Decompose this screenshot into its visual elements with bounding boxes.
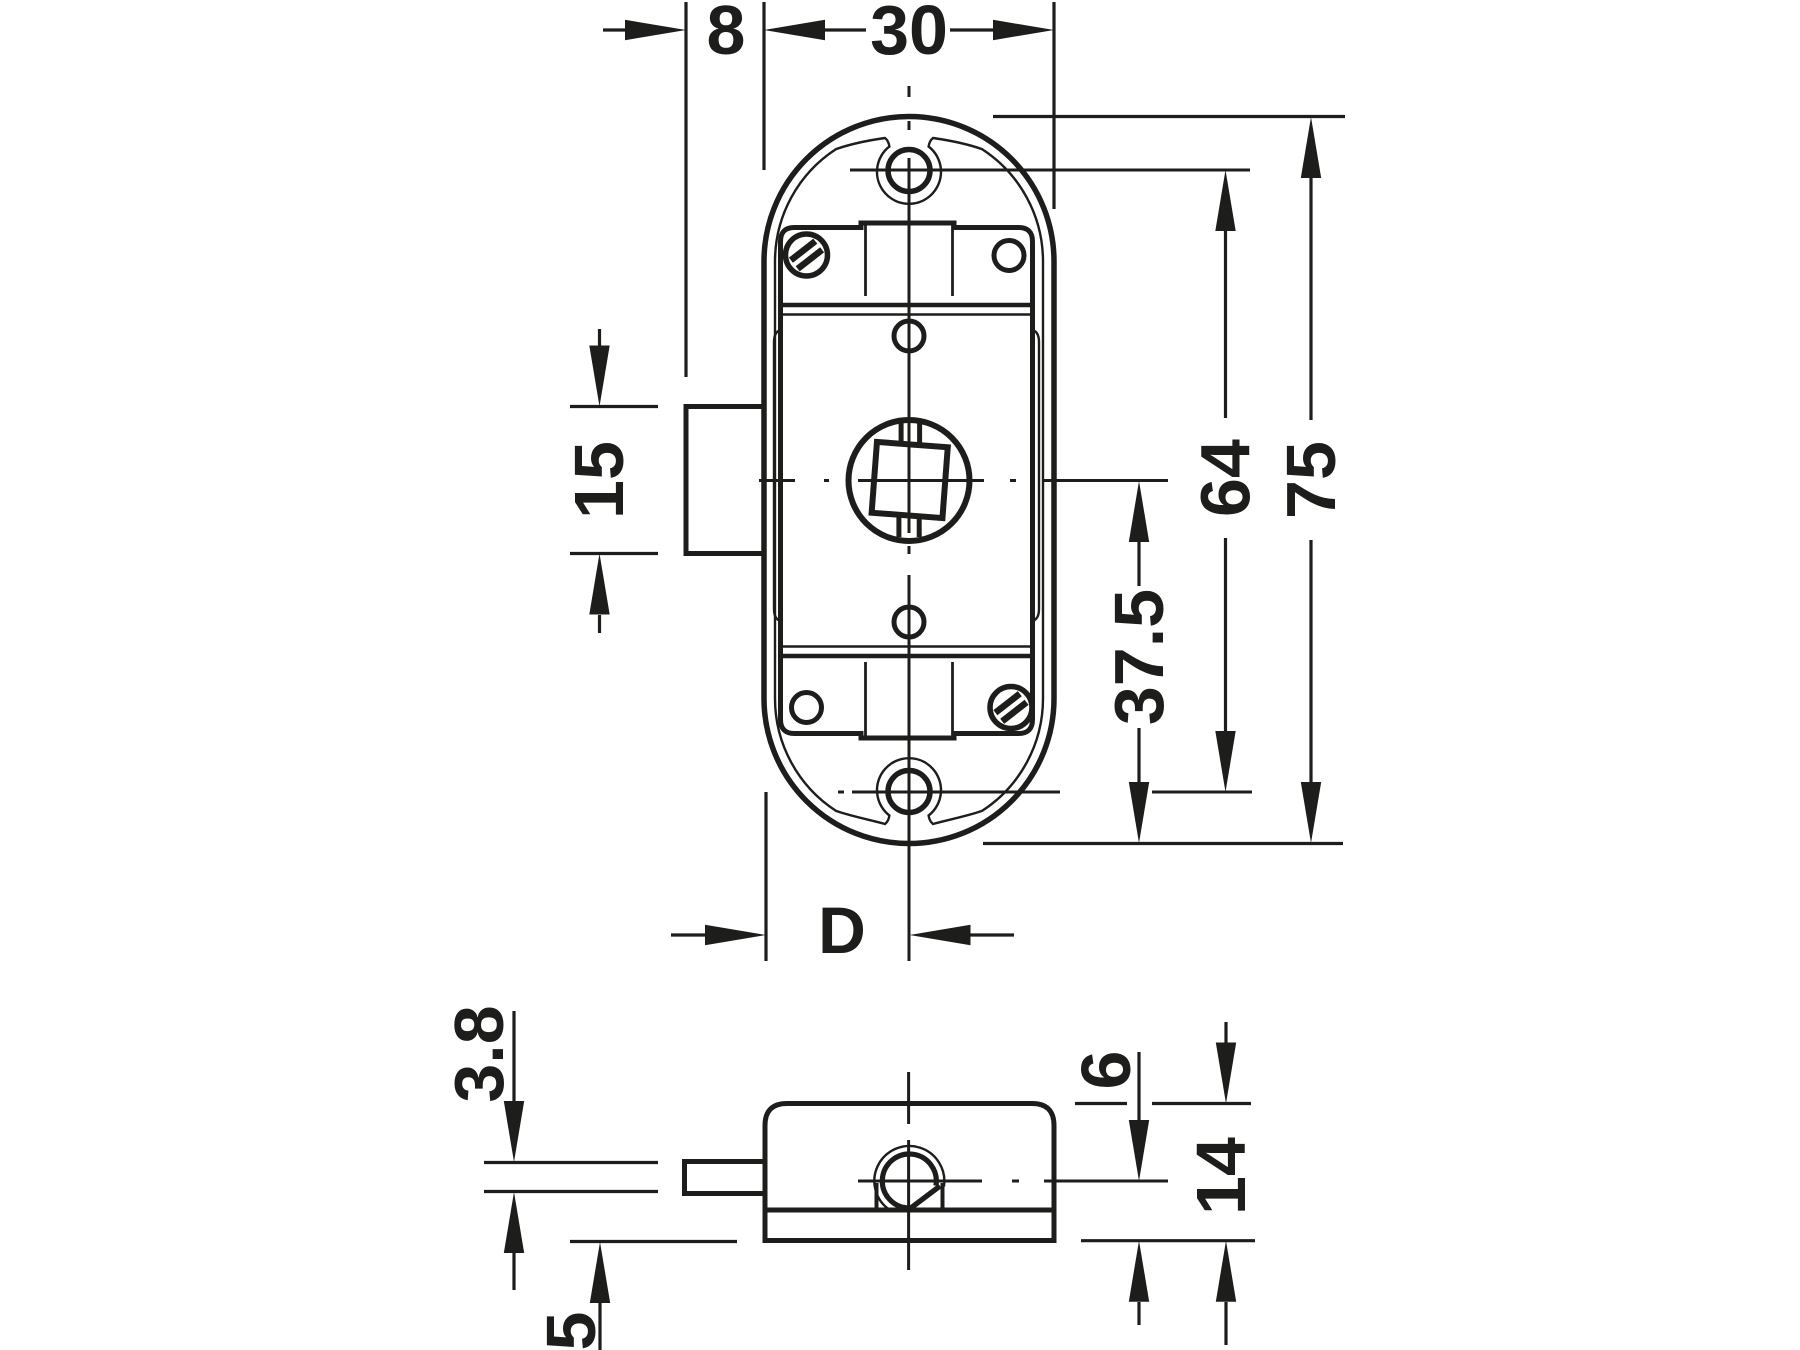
- top right hole: [994, 241, 1024, 271]
- dim D extension line: [764, 792, 767, 961]
- slide channel bottom left edge: [864, 662, 867, 736]
- lock housing oval (stadium outline): [764, 117, 1054, 844]
- svg-text:37.5: 37.5: [1100, 589, 1178, 725]
- upper guide hole: [894, 321, 924, 351]
- top mounting screw hole: [888, 150, 930, 192]
- oval bottom extension line: [983, 842, 1343, 845]
- SIDE VIEW: [685, 1104, 1055, 1241]
- spindle hub thin circle: [874, 1146, 944, 1210]
- lower guide hole: [894, 607, 924, 637]
- dim 15 arrows: [598, 329, 601, 346]
- spindle hub bold circle with flat: [882, 1154, 936, 1208]
- dim 30 left arrow: [764, 20, 825, 40]
- dim 3.8 extension lines: [484, 1161, 658, 1164]
- spindle boss circle: [849, 420, 970, 541]
- extension line x1054: [1052, 2, 1055, 209]
- svg-text:8: 8: [707, 0, 746, 69]
- spindle bottom slot: [896, 514, 901, 537]
- dim 14 line and arrows: [1224, 1022, 1227, 1043]
- front horizontal centerline (spindle): [759, 479, 1168, 482]
- oval top extension line: [993, 115, 1345, 118]
- svg-text:64: 64: [1187, 439, 1265, 517]
- extension line x686: [684, 2, 687, 377]
- slide channel bottom right edge: [951, 662, 954, 736]
- dim 3.8 line and arrows: [512, 1011, 515, 1101]
- top left fixing screw: [786, 234, 828, 276]
- bottom mounting screw hole: [888, 771, 930, 813]
- dim 75 line: [1301, 117, 1321, 178]
- dim 64 line: [1215, 170, 1235, 231]
- slide channel top left edge: [864, 226, 867, 297]
- latch bolt (left protrusion): [686, 407, 768, 554]
- spindle top slot: [899, 423, 904, 445]
- bottom left hole: [792, 693, 822, 723]
- side wall bracket left: [774, 330, 781, 621]
- bottom band line bold: [783, 654, 1030, 659]
- side body outline: [765, 1104, 1054, 1241]
- inner housing contour with screw-hole cusps: [775, 138, 1043, 824]
- dim 6 line and arrows: [1137, 1052, 1140, 1121]
- side bottom extension line: [1081, 1239, 1255, 1242]
- FRONT VIEW: [686, 117, 1054, 844]
- top band line thin: [783, 313, 1030, 315]
- svg-text:5: 5: [532, 1312, 610, 1350]
- svg-text:6: 6: [1067, 1051, 1145, 1090]
- svg-text:3.8: 3.8: [440, 1005, 518, 1102]
- bottom hole centerline extension: [838, 791, 1252, 794]
- front vertical centerline: [908, 86, 911, 961]
- spindle flat chord: [910, 1186, 941, 1209]
- svg-text:75: 75: [1272, 441, 1350, 519]
- svg-text:14: 14: [1182, 1137, 1260, 1215]
- mounting plate line: [765, 1208, 1054, 1213]
- svg-text:30: 30: [870, 0, 948, 69]
- side top extension line: [1075, 1102, 1127, 1105]
- dim D arrows: [671, 933, 709, 936]
- dim 5 arrow: [590, 1242, 610, 1303]
- side wall bracket right: [1033, 330, 1040, 621]
- side view vertical centerline: [907, 1072, 910, 1270]
- dim 8 arrow and line: [603, 28, 628, 31]
- dim 15 extension lines: [570, 405, 658, 408]
- side view horizontal centerline: [858, 1180, 1168, 1183]
- top hole centerline extension: [850, 169, 1250, 172]
- svg-text:D: D: [818, 893, 866, 967]
- slide channel top right edge: [951, 226, 954, 297]
- extension line x764: [762, 2, 765, 170]
- hub square left edge: [875, 1183, 879, 1210]
- hub square right edge: [941, 1183, 945, 1210]
- dim 30 right arrow: [993, 20, 1054, 40]
- latch pin side: [685, 1162, 766, 1194]
- dim 37.5 line: [1129, 481, 1149, 542]
- dim 5 extension line: [570, 1240, 737, 1243]
- svg-text:15: 15: [560, 441, 638, 519]
- spindle square hole: [872, 442, 948, 518]
- cover plate with tabs: [781, 223, 1033, 738]
- bottom right fixing screw: [990, 687, 1032, 729]
- top band line bold: [783, 303, 1030, 308]
- bottom band line thin: [783, 645, 1030, 647]
- DIMENSIONS: [440, 0, 1350, 1350]
